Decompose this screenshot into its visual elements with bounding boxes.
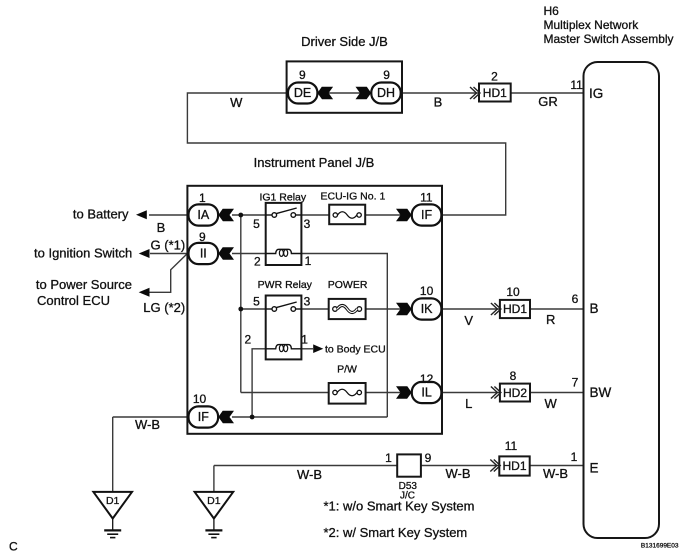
svg-text:2: 2 — [254, 255, 261, 269]
svg-text:W-B: W-B — [445, 466, 470, 481]
svg-text:10: 10 — [506, 285, 520, 299]
svg-text:HD1: HD1 — [502, 459, 526, 473]
svg-text:9: 9 — [425, 451, 432, 465]
svg-text:PWR Relay: PWR Relay — [258, 279, 313, 291]
svg-text:HD1: HD1 — [503, 302, 527, 316]
svg-text:W-B: W-B — [543, 466, 568, 481]
svg-text:B: B — [157, 220, 166, 235]
svg-text:IL: IL — [421, 386, 431, 400]
svg-text:11: 11 — [570, 78, 583, 92]
svg-text:10: 10 — [193, 392, 207, 406]
svg-text:IG1 Relay: IG1 Relay — [259, 192, 306, 204]
svg-text:W-B: W-B — [297, 467, 322, 482]
svg-text:1: 1 — [301, 333, 308, 347]
svg-text:11: 11 — [420, 190, 433, 204]
svg-text:Instrument Panel J/B: Instrument Panel J/B — [254, 155, 375, 170]
svg-text:11: 11 — [505, 439, 518, 453]
svg-text:*2: w/ Smart Key System: *2: w/ Smart Key System — [324, 525, 468, 540]
svg-text:H6: H6 — [544, 4, 560, 18]
svg-text:to Power Source: to Power Source — [36, 277, 132, 292]
svg-text:2: 2 — [245, 333, 252, 347]
svg-text:LG (*2): LG (*2) — [143, 300, 185, 315]
svg-text:Control ECU: Control ECU — [37, 293, 110, 308]
svg-text:5: 5 — [253, 295, 260, 309]
svg-text:HD1: HD1 — [483, 86, 507, 100]
svg-text:II: II — [200, 247, 207, 261]
svg-text:ECU-IG No. 1: ECU-IG No. 1 — [321, 191, 386, 203]
svg-text:C: C — [9, 540, 18, 554]
svg-text:BW: BW — [590, 385, 612, 400]
svg-text:1: 1 — [385, 451, 392, 465]
svg-text:10: 10 — [420, 284, 434, 298]
svg-text:*1: w/o Smart Key System: *1: w/o Smart Key System — [324, 499, 475, 514]
svg-text:12: 12 — [420, 372, 434, 386]
svg-text:E: E — [590, 461, 599, 476]
svg-text:B: B — [434, 94, 443, 109]
svg-text:1: 1 — [571, 450, 578, 464]
svg-text:GR: GR — [538, 94, 558, 109]
svg-text:L: L — [465, 396, 472, 411]
svg-text:IG: IG — [589, 86, 603, 101]
svg-text:D1: D1 — [106, 495, 120, 507]
svg-text:HD2: HD2 — [503, 386, 527, 400]
svg-text:to Body ECU: to Body ECU — [325, 344, 386, 356]
svg-text:9: 9 — [383, 68, 390, 82]
svg-text:DE: DE — [294, 86, 311, 100]
svg-text:V: V — [464, 313, 473, 328]
svg-text:POWER: POWER — [328, 279, 368, 291]
svg-text:1: 1 — [199, 191, 206, 205]
svg-text:D1: D1 — [207, 495, 221, 507]
svg-text:P/W: P/W — [337, 364, 357, 376]
svg-text:to Battery: to Battery — [73, 206, 129, 221]
svg-text:8: 8 — [510, 369, 517, 383]
svg-text:IA: IA — [197, 208, 209, 222]
svg-text:Master Switch Assembly: Master Switch Assembly — [544, 32, 674, 46]
svg-text:B: B — [590, 301, 599, 316]
svg-text:2: 2 — [491, 69, 498, 83]
svg-text:1: 1 — [305, 254, 312, 268]
svg-text:IF: IF — [421, 208, 432, 222]
svg-text:W: W — [545, 396, 558, 411]
svg-text:IK: IK — [421, 302, 433, 316]
svg-text:Multiplex Network: Multiplex Network — [544, 18, 640, 32]
svg-text:W-B: W-B — [135, 417, 160, 432]
svg-text:7: 7 — [572, 376, 579, 390]
svg-text:6: 6 — [572, 292, 579, 306]
svg-text:5: 5 — [253, 217, 260, 231]
svg-text:IF: IF — [198, 410, 209, 424]
svg-text:DH: DH — [377, 86, 395, 100]
svg-text:9: 9 — [199, 230, 206, 244]
svg-text:W: W — [230, 95, 243, 110]
svg-text:R: R — [546, 312, 555, 327]
svg-text:B131699E03: B131699E03 — [641, 543, 679, 550]
svg-text:J/C: J/C — [400, 491, 415, 502]
svg-text:9: 9 — [299, 68, 306, 82]
svg-text:to Ignition Switch: to Ignition Switch — [34, 246, 132, 261]
svg-text:Driver Side J/B: Driver Side J/B — [301, 34, 388, 49]
svg-text:G (*1): G (*1) — [151, 238, 186, 253]
svg-text:3: 3 — [304, 295, 311, 309]
svg-text:3: 3 — [304, 217, 311, 231]
